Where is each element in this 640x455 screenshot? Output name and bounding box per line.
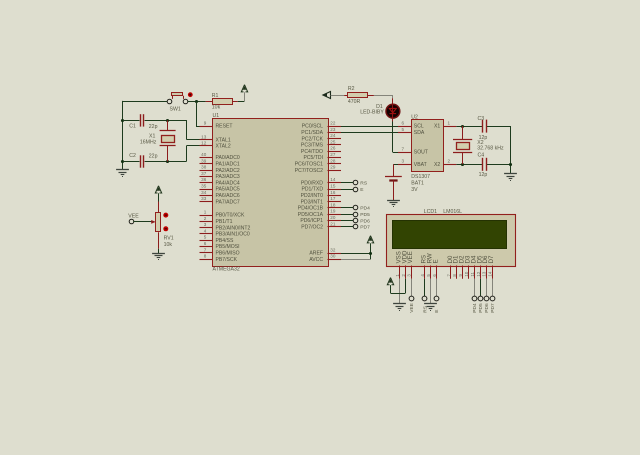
svg-text:PA4/ADC4: PA4/ADC4	[216, 180, 240, 186]
svg-text:PC7/TOSC2: PC7/TOSC2	[295, 168, 323, 174]
svg-text:PD6/ICP1: PD6/ICP1	[300, 218, 323, 224]
svg-text:E: E	[434, 309, 440, 312]
svg-text:16: 16	[330, 190, 336, 195]
svg-text:PD6: PD6	[484, 303, 490, 313]
svg-text:39: 39	[201, 158, 207, 163]
svg-text:VEE: VEE	[128, 213, 139, 219]
svg-text:15: 15	[330, 184, 336, 189]
svg-text:11: 11	[470, 271, 475, 276]
svg-text:13: 13	[201, 134, 207, 139]
svg-text:30: 30	[330, 254, 336, 259]
svg-text:10: 10	[464, 271, 469, 276]
svg-text:7: 7	[204, 247, 207, 252]
svg-text:1: 1	[204, 210, 207, 215]
svg-text:2: 2	[204, 216, 207, 221]
svg-text:20: 20	[330, 215, 336, 220]
svg-text:PB0/T0/XCK: PB0/T0/XCK	[216, 213, 245, 219]
svg-text:PD7/OC2: PD7/OC2	[301, 225, 323, 231]
svg-text:22p: 22p	[149, 154, 158, 160]
svg-text:R1: R1	[212, 93, 219, 99]
svg-text:PA6/ADC6: PA6/ADC6	[216, 193, 240, 199]
svg-text:PB7/SCK: PB7/SCK	[216, 257, 238, 263]
svg-text:14: 14	[330, 177, 336, 182]
svg-text:PD5: PD5	[360, 212, 370, 218]
svg-text:12p: 12p	[479, 172, 488, 178]
svg-text:35: 35	[201, 184, 207, 189]
svg-text:32.768 kHz: 32.768 kHz	[477, 146, 504, 152]
svg-text:25: 25	[330, 139, 336, 144]
svg-text:5: 5	[204, 235, 207, 240]
svg-text:SW1: SW1	[170, 106, 181, 112]
svg-text:37: 37	[201, 171, 207, 176]
svg-text:R2: R2	[348, 86, 355, 92]
svg-text:40: 40	[201, 152, 207, 157]
svg-text:32: 32	[330, 248, 336, 253]
svg-text:AVCC: AVCC	[309, 257, 323, 263]
svg-text:AREF: AREF	[309, 251, 323, 257]
svg-text:PA5/ADC5: PA5/ADC5	[216, 187, 240, 193]
svg-text:14: 14	[488, 271, 493, 276]
svg-text:ATMEGA32: ATMEGA32	[213, 267, 240, 273]
svg-text:21: 21	[330, 221, 336, 226]
svg-text:PD0/RXD: PD0/RXD	[301, 180, 323, 186]
svg-text:470R: 470R	[348, 99, 361, 105]
svg-text:17: 17	[330, 196, 336, 201]
svg-text:22p: 22p	[149, 124, 158, 130]
svg-text:PC3/TMS: PC3/TMS	[301, 143, 324, 149]
svg-text:6: 6	[204, 241, 207, 246]
svg-text:12: 12	[476, 271, 481, 276]
svg-text:U2: U2	[411, 114, 418, 120]
svg-text:PD4: PD4	[360, 206, 370, 212]
svg-text:PB6/MISO: PB6/MISO	[216, 251, 240, 257]
svg-text:19: 19	[330, 209, 336, 214]
svg-text:33: 33	[201, 196, 207, 201]
svg-text:PB3/AIN1/OC0: PB3/AIN1/OC0	[216, 232, 250, 238]
svg-text:PA2/ADC2: PA2/ADC2	[216, 168, 240, 174]
svg-text:PD4: PD4	[472, 303, 478, 313]
svg-text:PD2/INT0: PD2/INT0	[301, 193, 324, 199]
svg-text:C2: C2	[129, 153, 136, 159]
svg-text:PC2/TCK: PC2/TCK	[301, 136, 323, 142]
svg-text:6: 6	[401, 121, 404, 126]
svg-text:BAT1: BAT1	[411, 180, 424, 186]
svg-text:SDA: SDA	[414, 130, 425, 136]
svg-text:9: 9	[204, 121, 207, 126]
svg-text:C4: C4	[478, 152, 485, 158]
svg-text:3V: 3V	[411, 187, 418, 193]
svg-text:PD4/OC1B: PD4/OC1B	[298, 206, 324, 212]
svg-text:36: 36	[201, 177, 207, 182]
svg-text:PD3/INT1: PD3/INT1	[301, 199, 324, 205]
svg-text:PD7: PD7	[360, 225, 370, 231]
svg-text:26: 26	[330, 146, 336, 151]
svg-text:PC6/TOSC1: PC6/TOSC1	[295, 162, 323, 168]
svg-text:PD5/OC1A: PD5/OC1A	[298, 212, 324, 218]
svg-text:X2: X2	[434, 162, 440, 168]
svg-text:VEE: VEE	[407, 251, 414, 263]
svg-text:E: E	[432, 259, 439, 263]
svg-text:PA0/ADC0: PA0/ADC0	[216, 155, 240, 161]
svg-text:PA7/ADC7: PA7/ADC7	[216, 199, 240, 205]
svg-text:38: 38	[201, 165, 207, 170]
svg-text:PB4/SS: PB4/SS	[216, 238, 234, 244]
svg-text:LCD1: LCD1	[424, 209, 437, 215]
svg-text:5: 5	[401, 127, 404, 132]
svg-text:10k: 10k	[164, 242, 173, 248]
svg-text:PB2/AIN0/INT2: PB2/AIN0/INT2	[216, 225, 251, 231]
svg-text:29: 29	[330, 165, 336, 170]
svg-text:2: 2	[448, 159, 451, 164]
svg-text:28: 28	[330, 158, 336, 163]
svg-text:PD7: PD7	[490, 303, 496, 313]
svg-text:XTAL1: XTAL1	[216, 138, 231, 144]
svg-text:PA3/ADC3: PA3/ADC3	[216, 174, 240, 180]
svg-text:SOUT: SOUT	[414, 150, 428, 156]
svg-text:U1: U1	[213, 113, 220, 119]
svg-text:C1: C1	[129, 124, 136, 130]
svg-text:13: 13	[482, 271, 487, 276]
svg-text:PC5/TDI: PC5/TDI	[303, 155, 323, 161]
svg-text:D7: D7	[488, 255, 495, 263]
svg-text:12: 12	[201, 140, 207, 145]
svg-text:XTAL2: XTAL2	[216, 144, 231, 150]
svg-text:PC0/SCL: PC0/SCL	[302, 124, 323, 130]
svg-text:24: 24	[330, 133, 336, 138]
svg-text:22: 22	[330, 121, 336, 126]
svg-text:1: 1	[448, 121, 451, 126]
svg-text:PB5/MOSI: PB5/MOSI	[216, 244, 240, 250]
svg-text:7: 7	[401, 147, 404, 152]
svg-text:PC1/SDA: PC1/SDA	[301, 130, 323, 136]
svg-text:VEE: VEE	[409, 303, 415, 313]
svg-text:23: 23	[330, 127, 336, 132]
svg-text:RS: RS	[360, 181, 368, 187]
svg-text:34: 34	[201, 190, 207, 195]
svg-text:C3: C3	[478, 116, 485, 122]
svg-text:RV1: RV1	[164, 236, 174, 242]
svg-text:LED-BIBY: LED-BIBY	[360, 109, 384, 115]
svg-text:3: 3	[401, 159, 404, 164]
svg-text:8: 8	[204, 254, 207, 259]
svg-text:LM016L: LM016L	[443, 209, 462, 215]
svg-text:16MHz: 16MHz	[140, 140, 157, 146]
svg-text:27: 27	[330, 152, 336, 157]
svg-text:RESET: RESET	[216, 124, 233, 130]
svg-text:VBAT: VBAT	[414, 162, 427, 168]
svg-text:10k: 10k	[212, 104, 221, 110]
svg-text:PA1/ADC1: PA1/ADC1	[216, 162, 240, 168]
svg-text:4: 4	[204, 228, 207, 233]
svg-text:SCL: SCL	[414, 124, 424, 130]
svg-text:18: 18	[330, 202, 336, 207]
svg-text:PB1/T1: PB1/T1	[216, 219, 233, 225]
svg-text:DS1307: DS1307	[411, 174, 430, 180]
svg-text:X1: X1	[434, 124, 440, 130]
svg-text:3: 3	[204, 222, 207, 227]
svg-text:PC4/TDO: PC4/TDO	[301, 149, 323, 155]
svg-text:PD5: PD5	[478, 303, 484, 313]
svg-text:PD6: PD6	[360, 218, 370, 224]
svg-text:PD1/TXD: PD1/TXD	[301, 187, 323, 193]
